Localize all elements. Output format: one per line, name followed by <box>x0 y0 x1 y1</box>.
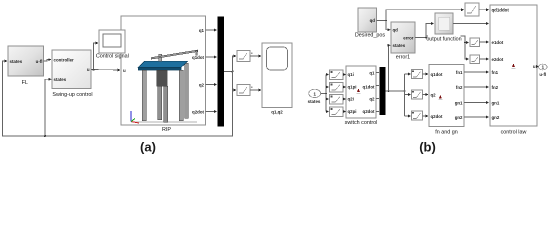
svg-text:q2: q2 <box>431 93 437 98</box>
arm <box>151 50 198 59</box>
svg-text:u-fl: u-fl <box>36 59 43 64</box>
tabletop front face <box>138 68 181 71</box>
svg-text:switch control: switch control <box>345 120 378 126</box>
derivative e2 <box>470 55 480 64</box>
wire FL to Swing-up <box>44 60 52 61</box>
block output function <box>426 13 461 43</box>
selector C3 <box>412 111 423 120</box>
svg-text:qd1ddot: qd1ddot <box>492 8 510 13</box>
svg-text:gn2: gn2 <box>492 115 500 120</box>
svg-text:states: states <box>308 99 321 104</box>
svg-text:qd: qd <box>370 18 376 23</box>
block fn and gn <box>429 65 464 136</box>
svg-text:qd: qd <box>393 28 399 33</box>
rear-right leg <box>185 63 189 118</box>
svg-text:u: u <box>123 68 126 73</box>
selector B4 <box>330 107 344 117</box>
svg-text:q1dot: q1dot <box>431 72 443 77</box>
red mark switch control <box>357 89 361 94</box>
svg-text:states: states <box>393 43 406 48</box>
mux A <box>218 17 225 127</box>
tabletop top face <box>138 61 188 67</box>
scope Control signal <box>96 30 129 60</box>
wires derivatives to control law <box>480 42 489 59</box>
wires selectors to scope A <box>250 53 261 91</box>
wire u out <box>537 66 539 68</box>
svg-text:(a): (a) <box>140 140 156 155</box>
wires selectors C to fn and gn <box>423 74 429 116</box>
svg-text:gn1: gn1 <box>492 101 500 106</box>
svg-text:fn1: fn1 <box>492 70 499 75</box>
derivative top <box>465 3 479 16</box>
red mark control law <box>512 64 516 69</box>
red mark fn and gn <box>438 95 442 100</box>
wire mux B out <box>386 45 406 92</box>
svg-text:Swing-up control: Swing-up control <box>52 92 92 98</box>
svg-text:e1dot: e1dot <box>492 40 504 45</box>
wire states to selectors B <box>321 75 329 112</box>
svg-text:error1: error1 <box>396 55 410 61</box>
svg-text:fn and gn: fn and gn <box>435 130 457 136</box>
block error1 <box>391 22 415 61</box>
wire output function to control law <box>453 23 489 25</box>
block Desired_pos <box>355 8 386 39</box>
svg-text:q2: q2 <box>369 97 375 102</box>
svg-text:fn1: fn1 <box>456 70 463 75</box>
wires switch control to mux B <box>376 73 379 112</box>
selector B2 <box>330 83 344 93</box>
wires selectors B to switch control <box>343 75 346 112</box>
wires RIP to mux A <box>206 30 217 112</box>
svg-text:q2: q2 <box>199 83 205 88</box>
arm elbow <box>196 51 197 56</box>
svg-text:q1dot: q1dot <box>192 55 204 60</box>
pedestal <box>157 70 168 86</box>
svg-text:q1dot: q1dot <box>363 85 375 90</box>
leg C <box>164 86 168 122</box>
selector C2 <box>412 90 423 99</box>
svg-text:states: states <box>10 59 23 64</box>
block Swing-up control <box>52 50 93 98</box>
wire error1 out <box>415 24 469 60</box>
svg-text:FL: FL <box>22 80 28 86</box>
wire mux A out <box>224 56 236 90</box>
svg-text:RIP: RIP <box>162 127 171 133</box>
svg-text:q1pi: q1pi <box>348 85 357 90</box>
wire feedback bottom (a) <box>3 61 233 137</box>
svg-text:fn2: fn2 <box>492 85 499 90</box>
svg-text:q2dot: q2dot <box>363 109 375 114</box>
svg-text:controller: controller <box>54 57 75 62</box>
svg-text:output function: output function <box>426 37 461 43</box>
svg-text:control law: control law <box>501 130 527 136</box>
wires fn and gn to control law <box>464 72 489 117</box>
RIP pendulum image <box>131 50 198 123</box>
port states <box>308 89 321 104</box>
selector B1 <box>330 70 344 80</box>
svg-text:gn1: gn1 <box>455 101 463 106</box>
mux B <box>380 67 386 115</box>
svg-text:gn2: gn2 <box>455 115 463 120</box>
svg-text:q1: q1 <box>199 28 205 33</box>
svg-text:(b): (b) <box>419 140 436 155</box>
svg-text:q2dot: q2dot <box>192 110 204 115</box>
block switch control <box>345 66 378 126</box>
svg-text:q2pi: q2pi <box>348 109 357 114</box>
port u-fl <box>539 64 548 77</box>
selector C1 <box>412 70 423 79</box>
svg-text:u: u <box>87 67 90 72</box>
wire derivative top to control law <box>479 9 489 11</box>
selector A1 <box>237 51 250 62</box>
wire to fn selectors <box>405 74 411 116</box>
selector B3 <box>330 95 344 105</box>
svg-text:Control signal: Control signal <box>96 54 129 60</box>
wire Swing-up to RIP <box>91 43 120 71</box>
svg-text:q1,q2: q1,q2 <box>271 110 283 115</box>
svg-text:error: error <box>403 35 414 40</box>
selector A2 <box>237 85 250 96</box>
block RIP <box>121 16 206 133</box>
svg-text:q1: q1 <box>369 71 375 76</box>
leg A front-left <box>142 70 146 120</box>
shaft <box>159 54 162 61</box>
svg-text:q2i: q2i <box>348 97 354 102</box>
floor line <box>131 121 197 123</box>
svg-text:q2dot: q2dot <box>431 114 443 119</box>
scope A <box>262 43 292 115</box>
svg-text:u: u <box>533 64 536 69</box>
svg-text:states: states <box>54 77 67 82</box>
block FL <box>8 46 44 86</box>
coordinate triad <box>130 111 132 122</box>
derivative e1 <box>470 38 480 47</box>
wire Desired_pos out <box>377 10 464 30</box>
svg-text:Desired_pos: Desired_pos <box>355 33 386 39</box>
leg D front-right <box>179 70 183 120</box>
svg-text:e2dot: e2dot <box>492 57 504 62</box>
svg-text:fn2: fn2 <box>456 85 463 90</box>
leg B <box>158 86 162 120</box>
svg-text:q1i: q1i <box>348 72 354 77</box>
svg-text:u-fl: u-fl <box>539 72 546 77</box>
block control law <box>490 5 537 136</box>
